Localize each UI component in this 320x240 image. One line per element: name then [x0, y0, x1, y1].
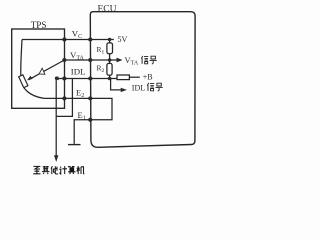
svg-text:5V: 5V	[118, 35, 128, 44]
svg-text:IDL: IDL	[71, 67, 86, 77]
svg-text:ECU: ECU	[98, 4, 117, 14]
svg-text:TPS: TPS	[31, 20, 47, 30]
svg-text:IDL: IDL	[132, 84, 145, 93]
svg-text:+B: +B	[143, 73, 153, 82]
